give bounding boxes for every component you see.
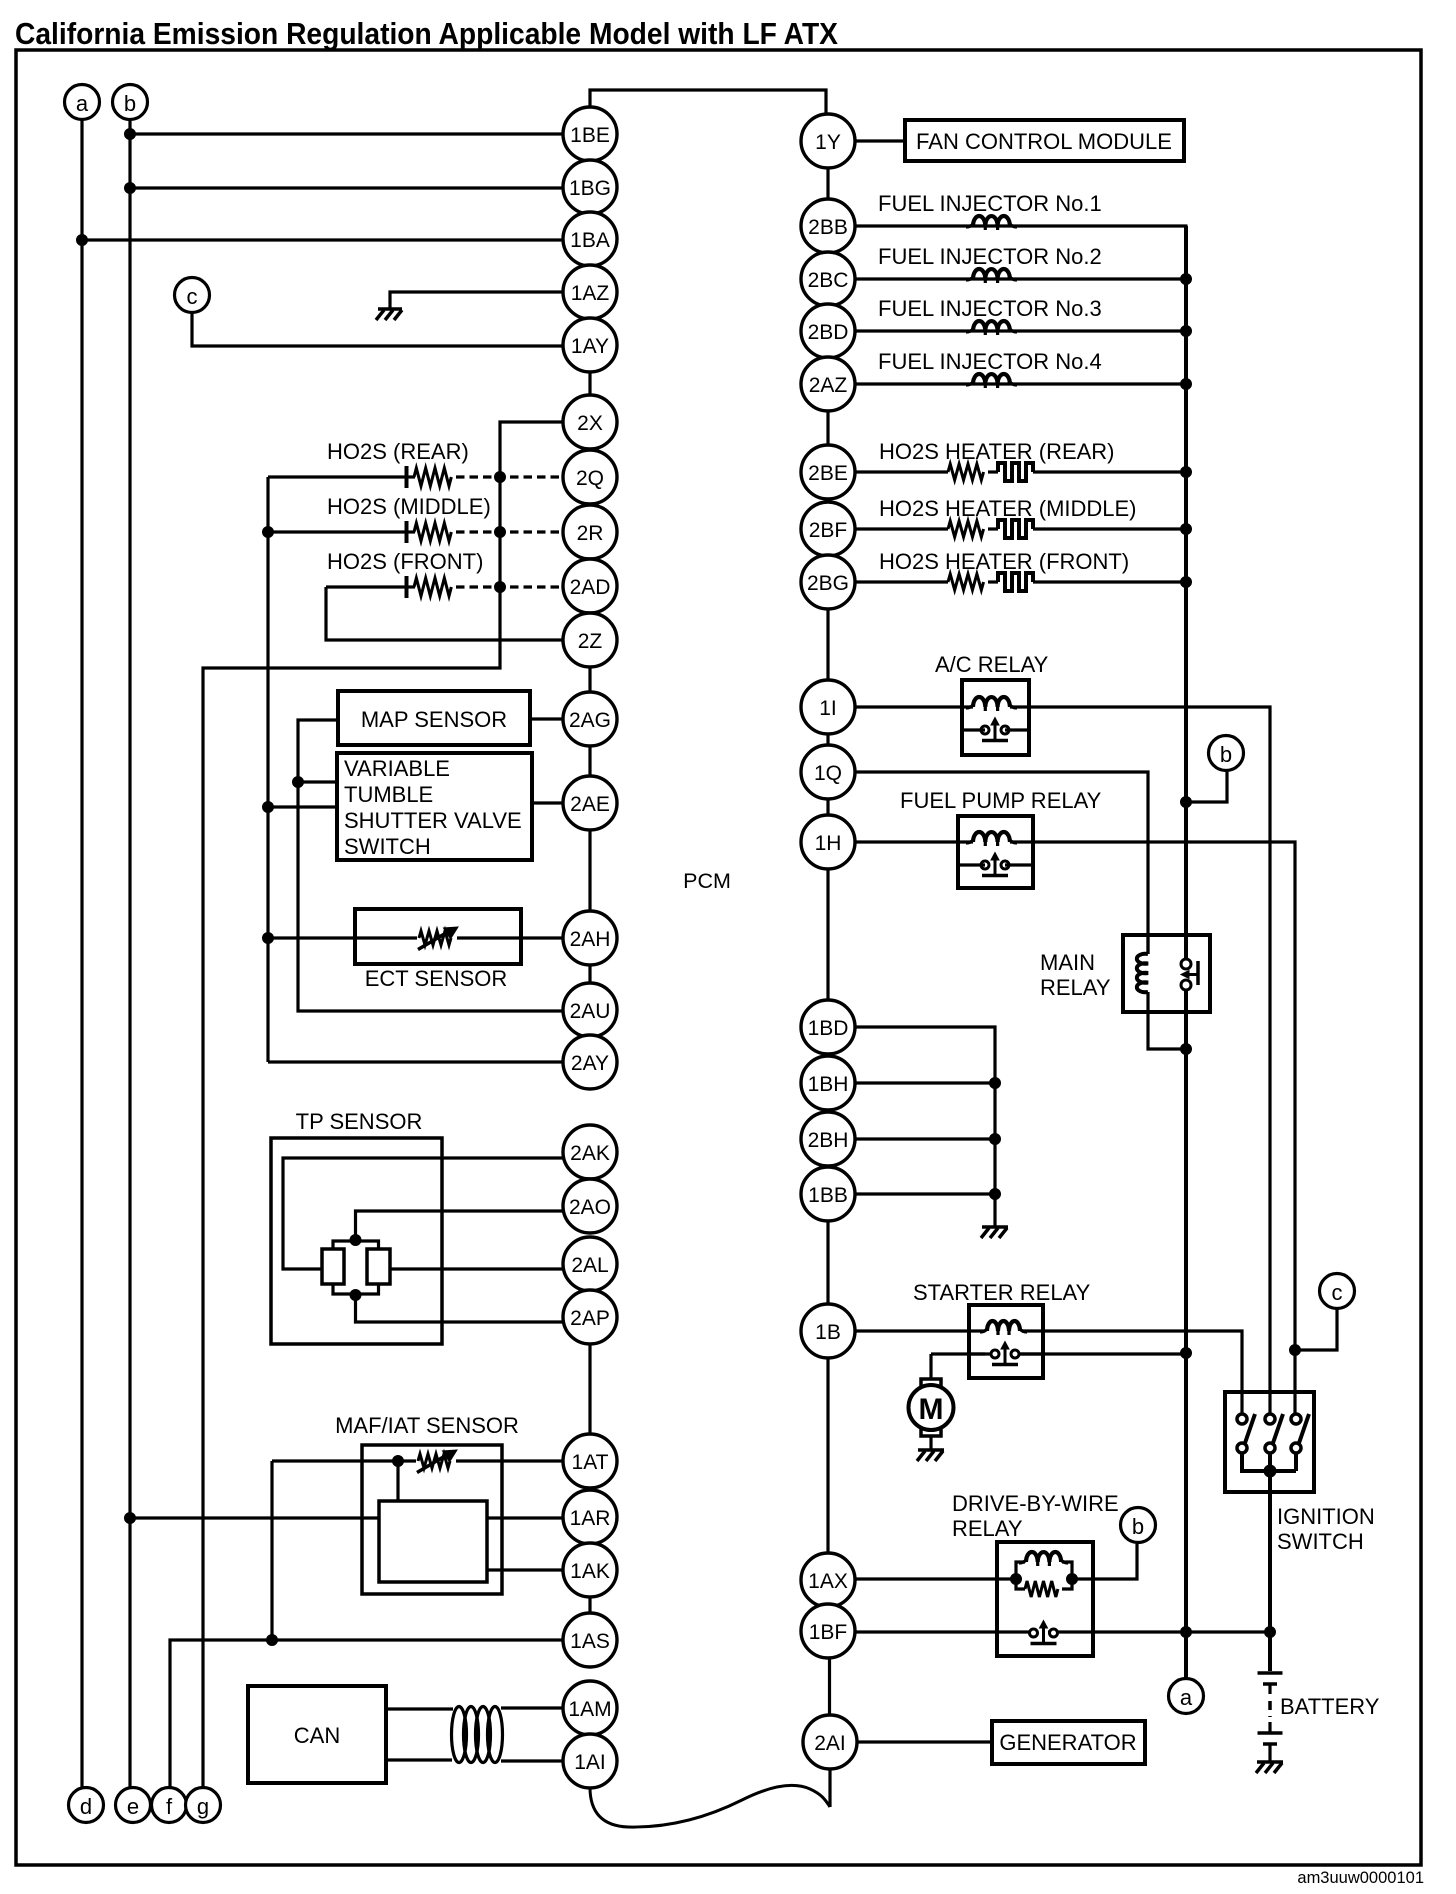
wire <box>828 1657 831 1716</box>
junction <box>1181 524 1192 535</box>
svg-text:SWITCH: SWITCH <box>1277 1529 1364 1554</box>
svg-text:2BD: 2BD <box>808 321 849 344</box>
svg-text:VARIABLE: VARIABLE <box>344 756 450 781</box>
wire <box>1186 771 1227 803</box>
HO2S heater (REAR) element <box>998 463 1033 481</box>
svg-text:1I: 1I <box>819 697 837 720</box>
junction <box>125 1513 136 1524</box>
A/C relay coil <box>966 697 1017 711</box>
wire <box>390 1267 564 1270</box>
svg-text:2AE: 2AE <box>570 793 610 816</box>
PCM pin 1AY <box>563 318 617 372</box>
wire <box>82 238 564 241</box>
wire <box>855 1630 1031 1633</box>
node b <box>1121 1508 1156 1543</box>
PCM pin 2AY <box>563 1035 617 1089</box>
svg-text:1BF: 1BF <box>809 1621 848 1644</box>
PCM pin 2BH <box>801 1112 855 1166</box>
PCM pin 1H <box>801 815 855 869</box>
ignition switch poles <box>1237 1414 1309 1453</box>
wire <box>826 1357 829 1554</box>
HO2S HEATER (REAR) label <box>879 439 1115 464</box>
wire <box>530 717 564 720</box>
svg-text:2AI: 2AI <box>814 1732 846 1755</box>
ignition switch box <box>1225 1392 1314 1492</box>
wire <box>588 1596 591 1614</box>
PCM pin 1AT <box>563 1434 617 1488</box>
svg-text:2Z: 2Z <box>578 630 603 653</box>
wire <box>1033 470 1186 473</box>
svg-text:FUEL INJECTOR No.4: FUEL INJECTOR No.4 <box>878 349 1102 374</box>
PCM pin 1AM <box>563 1681 617 1735</box>
wire <box>272 1459 416 1462</box>
junction <box>350 1235 361 1246</box>
wire <box>456 1459 564 1462</box>
svg-text:a: a <box>1180 1685 1193 1710</box>
svg-text:TP SENSOR: TP SENSOR <box>296 1109 423 1134</box>
starter motor M <box>909 1379 954 1450</box>
svg-text:2Q: 2Q <box>576 467 604 490</box>
svg-text:1AS: 1AS <box>570 1630 610 1653</box>
svg-text:2R: 2R <box>577 522 604 545</box>
PCM pin 2AK <box>563 1125 617 1179</box>
PCM pin 2AO <box>563 1179 617 1233</box>
FUEL INJECTOR No.1 label <box>878 191 1102 216</box>
junction <box>267 1635 278 1646</box>
svg-text:d: d <box>80 1794 92 1819</box>
svg-text:1AI: 1AI <box>574 1751 606 1774</box>
svg-text:2AU: 2AU <box>570 1000 611 1023</box>
fuel injector No.4 coil <box>966 374 1017 388</box>
node g <box>186 1788 221 1823</box>
wire <box>826 1220 829 1305</box>
PCM pin 2Z <box>563 613 617 667</box>
svg-text:2BC: 2BC <box>808 269 849 292</box>
MAF/IAT SENSOR label <box>335 1413 519 1438</box>
junction <box>1181 577 1192 588</box>
wire <box>855 329 1187 332</box>
svg-text:e: e <box>127 1794 139 1819</box>
wire <box>855 1192 996 1195</box>
svg-text:1Q: 1Q <box>814 762 842 785</box>
svg-text:STARTER RELAY: STARTER RELAY <box>913 1280 1091 1305</box>
HO2S (MIDDLE) sensor <box>268 494 564 543</box>
wire <box>855 580 949 583</box>
svg-text:c: c <box>1332 1280 1343 1305</box>
TP potentiometer <box>322 1241 390 1294</box>
GENERATOR box <box>992 1721 1145 1764</box>
junction <box>495 472 506 483</box>
starter relay contact <box>969 1342 1043 1365</box>
wire <box>588 746 591 777</box>
wire <box>826 798 829 816</box>
svg-text:FUEL INJECTOR No.2: FUEL INJECTOR No.2 <box>878 244 1102 269</box>
PCM pin 2BC <box>801 252 855 306</box>
fuel injector No.1 coil <box>966 216 1017 230</box>
wire <box>828 1768 831 1807</box>
wire <box>390 292 564 309</box>
wire <box>487 1516 564 1519</box>
FUEL INJECTOR No.2 label <box>878 244 1102 269</box>
junction <box>990 1134 1001 1145</box>
fuel injector No.2 coil <box>966 269 1017 283</box>
HO2S HEATER (MIDDLE) label <box>879 496 1137 521</box>
svg-text:PCM: PCM <box>683 869 731 893</box>
wire <box>386 1707 453 1710</box>
battery <box>1258 1673 1283 1762</box>
TP sensor box <box>271 1138 442 1344</box>
wire <box>826 410 829 446</box>
svg-text:2AZ: 2AZ <box>809 374 848 397</box>
svg-text:MAIN: MAIN <box>1040 950 1095 975</box>
HO2S (FRONT) sensor <box>326 549 564 598</box>
svg-text:2AL: 2AL <box>571 1254 608 1277</box>
wire <box>203 422 564 1788</box>
PCM pin 2AU <box>563 983 617 1037</box>
PCM pin 1BG <box>563 160 617 214</box>
svg-text:FUEL INJECTOR No.1: FUEL INJECTOR No.1 <box>878 191 1102 216</box>
node b <box>1209 736 1244 771</box>
wire <box>386 1758 452 1761</box>
wire <box>268 936 417 939</box>
svg-text:SWITCH: SWITCH <box>344 834 431 859</box>
PCM pin 2X <box>563 395 617 449</box>
svg-text:MAP SENSOR: MAP SENSOR <box>361 707 507 732</box>
junction <box>1290 1345 1301 1356</box>
starter relay coil <box>980 1321 1027 1335</box>
HO2S heater (MIDDLE) element <box>998 520 1033 538</box>
variable tumble shutter valve switch box <box>337 753 532 860</box>
wire <box>826 734 829 747</box>
svg-text:HO2S HEATER (FRONT): HO2S HEATER (FRONT) <box>879 549 1129 574</box>
main relay coil <box>1137 935 1186 1049</box>
PCM pin 2AZ <box>801 357 855 411</box>
CAN box <box>248 1686 386 1783</box>
svg-text:BATTERY: BATTERY <box>1280 1694 1380 1719</box>
PCM pin 1AZ <box>563 265 617 319</box>
svg-text:GENERATOR: GENERATOR <box>999 1730 1136 1755</box>
wire <box>1268 1471 1272 1671</box>
HO2S heater (REAR) resistor <box>948 464 984 480</box>
junction <box>1181 1044 1192 1055</box>
BATTERY label <box>1280 1694 1380 1719</box>
PCM pin 2BF <box>801 502 855 556</box>
svg-text:FUEL INJECTOR No.3: FUEL INJECTOR No.3 <box>878 296 1102 321</box>
wire <box>1033 580 1186 583</box>
svg-text:1BG: 1BG <box>569 177 611 200</box>
wire <box>1022 1331 1242 1414</box>
junction <box>293 777 304 788</box>
svg-text:1BH: 1BH <box>808 1073 849 1096</box>
PCM pin 2AD <box>563 559 617 613</box>
wire <box>80 120 83 1789</box>
HO2S heater (MIDDLE) resistor <box>948 521 984 537</box>
junction <box>350 1290 361 1301</box>
svg-text:1BD: 1BD <box>808 1017 849 1040</box>
svg-text:2BH: 2BH <box>808 1129 849 1152</box>
fuel pump relay contact <box>958 853 1033 876</box>
MAF IAT thermistor <box>417 1450 457 1473</box>
wire <box>855 470 949 473</box>
svg-text:2BB: 2BB <box>808 216 848 239</box>
svg-text:HO2S (MIDDLE): HO2S (MIDDLE) <box>327 494 491 519</box>
MAP sensor box <box>338 691 530 745</box>
TP SENSOR label <box>296 1109 423 1134</box>
wire <box>855 224 1188 227</box>
wire <box>826 608 829 681</box>
svg-text:2AY: 2AY <box>571 1052 609 1075</box>
PCM pin 1BB <box>801 1167 855 1221</box>
svg-text:2BG: 2BG <box>807 572 849 595</box>
wire <box>826 168 829 201</box>
junction <box>495 527 506 538</box>
MAF/IAT sensor box <box>362 1445 502 1594</box>
FAN CONTROL MODULE box <box>905 120 1184 161</box>
junction <box>1181 467 1192 478</box>
fuel pump relay coil <box>966 832 1017 846</box>
wire <box>1048 1630 1270 1633</box>
svg-text:1AK: 1AK <box>570 1560 610 1583</box>
svg-text:MAF/IAT SENSOR: MAF/IAT SENSOR <box>335 1413 519 1438</box>
power bus wire <box>1184 226 1188 959</box>
PCM pin 1Y <box>801 114 855 168</box>
DRIVE-BY-WIRE RELAY label <box>952 1491 1119 1541</box>
wire <box>588 666 591 693</box>
svg-text:DRIVE-BY-WIRE: DRIVE-BY-WIRE <box>952 1491 1119 1516</box>
wire <box>855 772 1149 954</box>
svg-text:HO2S (REAR): HO2S (REAR) <box>327 439 469 464</box>
wire <box>487 1568 564 1571</box>
svg-text:1BE: 1BE <box>570 124 610 147</box>
ground <box>376 309 402 320</box>
svg-text:am3uuw0000101: am3uuw0000101 <box>1297 1869 1424 1887</box>
title <box>15 16 838 51</box>
wire <box>855 382 1187 385</box>
svg-text:b: b <box>1220 742 1232 767</box>
wire <box>855 840 974 843</box>
junction <box>125 129 136 140</box>
wire <box>298 780 337 783</box>
PCM pin 2AL <box>563 1237 617 1291</box>
wire <box>356 1211 564 1243</box>
wire <box>170 1640 564 1788</box>
PCM pin 2AP <box>563 1290 617 1344</box>
node f <box>152 1788 187 1823</box>
ground <box>1256 1762 1283 1773</box>
svg-text:IGNITION: IGNITION <box>1277 1504 1375 1529</box>
wire <box>988 527 998 530</box>
svg-text:c: c <box>187 284 198 309</box>
IGNITION SWITCH label <box>1277 1504 1375 1554</box>
svg-text:1AZ: 1AZ <box>571 282 610 305</box>
node c <box>175 278 210 313</box>
drive-by-wire relay contact <box>1030 1621 1058 1644</box>
wire <box>1294 1453 1298 1471</box>
svg-text:1AY: 1AY <box>571 335 609 358</box>
A/C relay box <box>962 680 1029 755</box>
PCM pin 1BD <box>801 1000 855 1054</box>
svg-text:2AK: 2AK <box>570 1142 610 1165</box>
FUEL INJECTOR No.4 label <box>878 349 1102 374</box>
wire <box>396 1461 399 1501</box>
wire <box>457 936 564 939</box>
junction <box>263 933 274 944</box>
wire <box>130 132 564 135</box>
svg-text:HO2S HEATER (MIDDLE): HO2S HEATER (MIDDLE) <box>879 496 1137 521</box>
wire <box>192 313 564 347</box>
junction <box>1265 1627 1276 1638</box>
ECT thermistor <box>418 927 458 950</box>
PCM pin 2BB <box>801 199 855 253</box>
drive-by-wire relay box <box>997 1542 1093 1656</box>
main relay box <box>1123 935 1210 1012</box>
wire <box>1033 527 1186 530</box>
A/C relay contact <box>962 718 1029 741</box>
PCM pin 2BE <box>801 445 855 499</box>
PCM pin 1B <box>801 1304 855 1358</box>
svg-text:2AH: 2AH <box>570 928 611 951</box>
wire <box>855 277 1187 280</box>
starter relay box <box>969 1305 1043 1378</box>
STARTER RELAY label <box>913 1280 1091 1305</box>
HO2S (REAR) sensor <box>268 439 564 488</box>
svg-text:1BB: 1BB <box>808 1184 848 1207</box>
CAN twisted pair <box>452 1707 503 1763</box>
wire <box>1015 1352 1186 1355</box>
svg-text:FAN CONTROL MODULE: FAN CONTROL MODULE <box>916 129 1172 154</box>
wire <box>270 1461 273 1640</box>
junction <box>1181 797 1192 808</box>
svg-text:2AG: 2AG <box>569 709 611 732</box>
ECT sensor box <box>355 909 521 964</box>
HO2S heater (FRONT) element <box>998 573 1033 591</box>
wire <box>855 1329 986 1332</box>
junction <box>1181 274 1192 285</box>
wire <box>268 805 337 808</box>
wire <box>1242 1453 1296 1471</box>
fuel pump relay box <box>958 816 1033 888</box>
fuel injector No.3 coil <box>966 321 1017 335</box>
wire <box>128 120 131 1789</box>
junction <box>1011 1574 1022 1585</box>
PCM pin 2AH <box>563 911 617 965</box>
svg-text:g: g <box>197 1794 209 1819</box>
FUEL INJECTOR No.3 label <box>878 296 1102 321</box>
PCM pin 1Q <box>801 745 855 799</box>
PCM pin 2AG <box>563 692 617 746</box>
PCM pin 1AR <box>563 1490 617 1544</box>
ground <box>981 1227 1008 1238</box>
PCM pin 1AK <box>563 1543 617 1597</box>
PCM pin 1BA <box>563 212 617 266</box>
svg-text:CAN: CAN <box>294 1723 340 1748</box>
svg-text:2BF: 2BF <box>809 519 848 542</box>
wire <box>356 1294 564 1322</box>
svg-text:HO2S (FRONT): HO2S (FRONT) <box>327 549 483 574</box>
wire <box>588 1343 591 1435</box>
junction <box>1181 379 1192 390</box>
junction <box>990 1189 1001 1200</box>
MAF inner box <box>379 1501 487 1582</box>
svg-text:FUEL PUMP RELAY: FUEL PUMP RELAY <box>900 788 1102 813</box>
wire <box>1010 842 1295 1414</box>
wire <box>855 1081 996 1084</box>
ground <box>917 1450 944 1461</box>
svg-text:1AT: 1AT <box>572 1451 609 1474</box>
wire <box>532 801 564 804</box>
junction <box>1181 326 1192 337</box>
wire <box>855 139 906 142</box>
wire <box>1072 1543 1137 1580</box>
wire <box>590 90 826 115</box>
svg-text:M: M <box>919 1393 944 1426</box>
wire <box>1295 1309 1337 1351</box>
svg-text:1BA: 1BA <box>570 229 610 252</box>
wire <box>283 1158 564 1269</box>
wire <box>268 1060 564 1063</box>
junction <box>990 1078 1001 1089</box>
junction <box>495 582 506 593</box>
PCM pin 1BE <box>563 107 617 161</box>
svg-text:2AP: 2AP <box>570 1307 610 1330</box>
PCM pin 2R <box>563 505 617 559</box>
PCM pin 2Q <box>563 450 617 504</box>
node d <box>69 1788 104 1823</box>
PCM label <box>683 869 731 893</box>
junction <box>393 1456 404 1467</box>
svg-text:California Emission Regulation: California Emission Regulation Applicabl… <box>15 16 838 51</box>
main relay contact <box>1181 959 1198 990</box>
wire <box>130 186 564 189</box>
svg-text:HO2S HEATER (REAR): HO2S HEATER (REAR) <box>879 439 1115 464</box>
PCM pin 2BG <box>801 555 855 609</box>
svg-text:a: a <box>76 91 89 116</box>
junction <box>1181 1627 1192 1638</box>
wire <box>1010 707 1270 1414</box>
node c <box>1320 1274 1355 1309</box>
wire <box>855 527 949 530</box>
svg-text:TUMBLE: TUMBLE <box>344 782 433 807</box>
svg-text:RELAY: RELAY <box>1040 975 1111 1000</box>
node b <box>113 85 148 120</box>
junction <box>1181 1348 1192 1359</box>
wire <box>1268 1453 1272 1471</box>
wire <box>590 1785 830 1827</box>
wire <box>326 587 564 640</box>
svg-text:f: f <box>166 1794 173 1819</box>
junction <box>125 183 136 194</box>
svg-text:1AX: 1AX <box>808 1570 848 1593</box>
ECT SENSOR label <box>365 966 508 991</box>
figure id am3uuw0000101 <box>1297 1869 1424 1887</box>
wire <box>298 720 564 1011</box>
junction <box>1264 1465 1276 1477</box>
MAIN RELAY label <box>1040 950 1111 1000</box>
PCM pin 1BF <box>801 1604 855 1658</box>
node e <box>116 1788 151 1823</box>
svg-text:2X: 2X <box>577 412 603 435</box>
HO2S heater (FRONT) resistor <box>948 574 984 590</box>
wire <box>858 1740 993 1743</box>
svg-text:1Y: 1Y <box>815 131 841 154</box>
FUEL PUMP RELAY label <box>900 788 1102 813</box>
wire <box>929 1354 932 1380</box>
wire <box>988 470 998 473</box>
PCM pin 1AX <box>801 1553 855 1607</box>
PCM pin 1BH <box>801 1056 855 1110</box>
svg-text:b: b <box>124 91 136 116</box>
svg-text:2BE: 2BE <box>808 462 848 485</box>
